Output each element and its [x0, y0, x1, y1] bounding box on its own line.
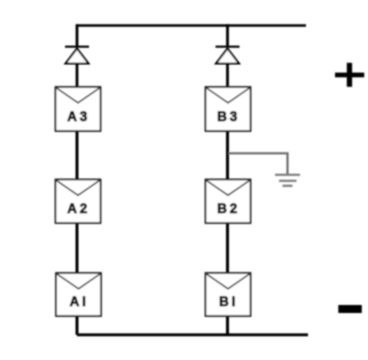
svg-text:B2: B2 [217, 201, 240, 216]
svg-text:AI: AI [70, 294, 89, 309]
svg-text:A2: A2 [67, 201, 90, 216]
svg-text:BI: BI [219, 294, 238, 309]
svg-text:B3: B3 [217, 109, 240, 124]
svg-text:A3: A3 [67, 109, 90, 124]
